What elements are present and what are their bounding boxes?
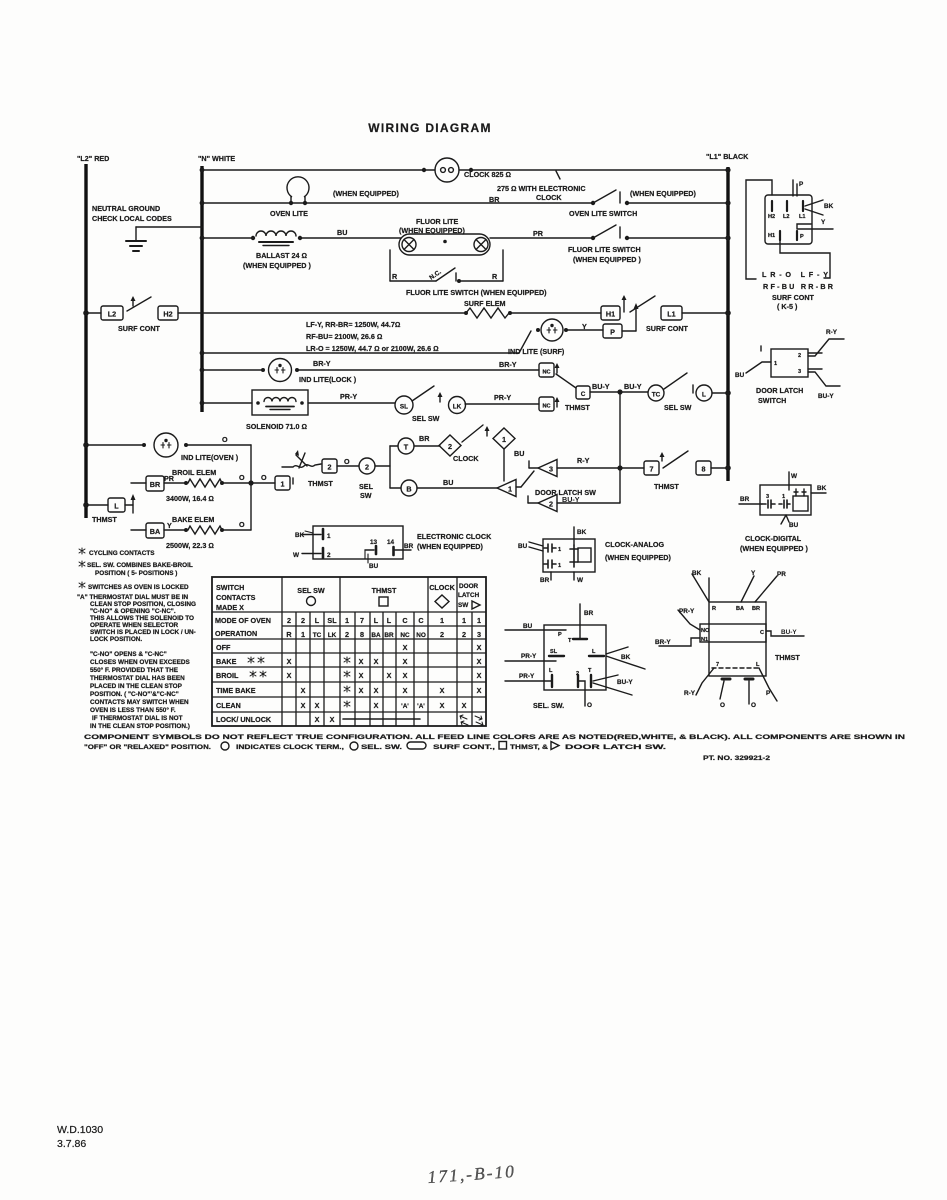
svg-text:R: R — [392, 272, 398, 281]
svg-text:X: X — [301, 686, 306, 695]
terminal L box thmst — [108, 498, 125, 512]
svg-text:X: X — [374, 657, 379, 666]
svg-text:BR: BR — [384, 632, 394, 639]
svg-text:C: C — [581, 391, 586, 398]
svg-text:X: X — [301, 701, 306, 710]
contact L circle — [696, 385, 712, 401]
node junction N row G — [200, 401, 205, 406]
wire 2box to 2circle — [337, 465, 359, 467]
contact pin 13 — [365, 549, 374, 551]
svg-text:2: 2 — [549, 500, 553, 509]
svg-text:X: X — [359, 671, 364, 680]
table vertical grid — [282, 577, 472, 726]
svg-text:CLEAN: CLEAN — [216, 701, 241, 710]
terminal BA box — [131, 529, 146, 531]
svg-text:OPERATE WHEN SELECTOR: OPERATE WHEN SELECTOR — [90, 622, 179, 629]
svg-text:SEL. SW.: SEL. SW. — [361, 744, 402, 751]
svg-text:L2: L2 — [783, 214, 790, 220]
svg-text:IND LITE(OVEN ): IND LITE(OVEN ) — [181, 453, 239, 462]
node junction L1 row C — [725, 235, 730, 240]
node junction L1 row D — [725, 310, 731, 316]
svg-text:L1: L1 — [799, 214, 806, 220]
svg-text:R-Y: R-Y — [684, 690, 696, 697]
svg-text:(WHEN EQUIPPED): (WHEN EQUIPPED) — [630, 189, 696, 198]
svg-text:SL: SL — [327, 616, 337, 625]
lamp oven lite — [287, 177, 309, 197]
lamp ind lite surf — [536, 328, 540, 332]
note star 3 — [79, 582, 85, 588]
svg-text:275 Ω WITH ELECTRONIC: 275 Ω WITH ELECTRONIC — [497, 184, 586, 193]
sel sw BR contact bar — [573, 638, 587, 640]
table lock arrows door latch — [460, 715, 468, 725]
wire row B oven lite line — [202, 202, 593, 204]
node junction L2 row K — [83, 502, 89, 508]
svg-text:O: O — [344, 457, 350, 466]
wire vertical BU-Y riser — [619, 392, 621, 502]
svg-text:LOCK/ UNLOCK: LOCK/ UNLOCK — [216, 715, 272, 724]
svg-text:THMST: THMST — [92, 515, 117, 524]
wire bracket vertical — [389, 446, 391, 488]
svg-text:X: X — [315, 701, 320, 710]
wire 8 box to L1 — [711, 467, 728, 469]
table horizontal grid — [212, 612, 486, 712]
wire L1 box to L1 bus — [682, 312, 728, 314]
legend clock term circle — [221, 742, 229, 750]
svg-text:BK: BK — [692, 570, 702, 577]
svg-text:NC: NC — [542, 404, 550, 410]
svg-text:1: 1 — [440, 616, 444, 625]
svg-text:PR-Y: PR-Y — [521, 653, 537, 660]
svg-text:X: X — [315, 715, 320, 724]
svg-text:L: L — [549, 668, 553, 674]
fluor tube right electrode — [474, 238, 488, 252]
svg-text:X: X — [403, 643, 408, 652]
svg-text:2: 2 — [345, 630, 349, 639]
svg-text:LF-Y, RR-BR= 1250W, 44.7Ω: LF-Y, RR-BR= 1250W, 44.7Ω — [306, 320, 400, 329]
resistor bake elem — [184, 528, 188, 532]
svg-text:BR-Y: BR-Y — [313, 359, 331, 368]
surf cont K-5 pin H1 — [779, 231, 781, 240]
svg-text:"L2" RED: "L2" RED — [77, 154, 109, 163]
clock-digital motor — [793, 496, 808, 511]
svg-text:PLACED IN THE CLEAN STOP: PLACED IN THE CLEAN STOP — [90, 683, 183, 690]
terminal NC box lower — [539, 397, 554, 411]
legend door latch triangle — [551, 742, 559, 750]
svg-text:B: B — [406, 485, 411, 494]
terminal L2 box — [101, 306, 123, 320]
node junction N row E — [200, 351, 205, 356]
node junction row H riser — [617, 465, 622, 470]
svg-text:CHECK LOCAL CODES: CHECK LOCAL CODES — [92, 214, 172, 223]
lamp ind lite oven terminals — [142, 443, 146, 447]
svg-text:R: R — [712, 606, 716, 612]
svg-text:3: 3 — [766, 494, 769, 500]
svg-text:P: P — [799, 181, 804, 188]
svg-text:SEL. SW.: SEL. SW. — [533, 701, 564, 710]
terminal 2 box — [322, 459, 337, 473]
svg-text:NO: NO — [701, 628, 710, 634]
thmst BK wire — [692, 574, 709, 602]
wire LK to NC lower — [465, 403, 539, 405]
svg-text:2: 2 — [328, 463, 332, 472]
svg-text:P: P — [800, 234, 804, 240]
contact door latch terminal 2 triangle — [527, 496, 529, 503]
wire oven lamp to corner — [186, 444, 251, 446]
wire surf elem to H1 — [510, 312, 601, 314]
svg-text:2: 2 — [448, 442, 452, 451]
svg-text:7: 7 — [650, 465, 654, 474]
svg-text:BR: BR — [150, 480, 161, 489]
svg-text:"A" THERMOSTAT DIAL MUST BE IN: "A" THERMOSTAT DIAL MUST BE IN — [77, 594, 189, 601]
thmst bottom contact 2 — [745, 678, 753, 681]
svg-text:CLOCK: CLOCK — [453, 454, 479, 463]
thmst Y wire — [741, 576, 754, 602]
wire P box riser — [622, 330, 636, 332]
svg-text:X: X — [477, 643, 482, 652]
svg-text:T: T — [404, 443, 409, 452]
svg-text:BR: BR — [584, 610, 594, 617]
svg-text:SOLENOID 71.0 Ω: SOLENOID 71.0 Ω — [246, 422, 307, 431]
svg-text:P: P — [558, 632, 562, 638]
wire L2 to ind lite oven — [86, 444, 144, 446]
svg-text:PR-Y: PR-Y — [679, 608, 695, 615]
svg-text:X: X — [403, 657, 408, 666]
svg-text:SL: SL — [550, 649, 558, 655]
node junction N row B — [200, 201, 205, 206]
svg-text:W: W — [791, 473, 798, 480]
node junction N row A — [200, 168, 205, 173]
sel sw BR pin — [579, 604, 581, 638]
wire lamp to P box — [566, 329, 603, 331]
svg-text:BU-Y: BU-Y — [592, 382, 610, 391]
svg-text:OVEN LITE SWITCH: OVEN LITE SWITCH — [569, 209, 637, 218]
svg-text:SEL. SW. COMBINES BAKE-BROIL: SEL. SW. COMBINES BAKE-BROIL — [87, 562, 193, 569]
wire triangle3 to 7 box — [557, 467, 644, 469]
svg-text:BROIL ELEM: BROIL ELEM — [172, 468, 216, 477]
svg-text:SEL SW: SEL SW — [664, 403, 692, 412]
svg-text:SW: SW — [360, 491, 372, 500]
svg-text:COMPONENT SYMBOLS DO NOT RE: COMPONENT SYMBOLS DO NOT REFLECT TRUE CO… — [84, 734, 906, 741]
svg-text:X: X — [462, 701, 467, 710]
svg-text:X: X — [287, 657, 292, 666]
svg-text:BR: BR — [752, 606, 760, 612]
wire solenoid to SL — [308, 402, 395, 404]
svg-text:2: 2 — [440, 630, 444, 639]
thmst PR wire — [755, 576, 777, 602]
svg-text:R-Y: R-Y — [826, 329, 838, 336]
wire H2 to surf elem — [178, 312, 466, 314]
svg-text:X: X — [477, 657, 482, 666]
svg-text:W.D.1030: W.D.1030 — [57, 1124, 103, 1136]
svg-text:(WHEN EQUIPPED ): (WHEN EQUIPPED ) — [243, 261, 311, 270]
svg-text:X: X — [287, 671, 292, 680]
wire L1 feed bus — [726, 167, 729, 481]
svg-text:1: 1 — [327, 533, 331, 540]
svg-text:SEL SW: SEL SW — [297, 586, 325, 595]
svg-text:IN THE CLEAN STOP POSITION.: IN THE CLEAN STOP POSITION.) — [90, 723, 190, 730]
svg-text:1: 1 — [558, 563, 561, 569]
svg-text:CLOCK: CLOCK — [429, 583, 455, 592]
svg-text:SURF ELEM: SURF ELEM — [464, 299, 506, 308]
node junction N row F — [200, 368, 205, 373]
svg-text:( K-5 ): ( K-5 ) — [777, 302, 798, 311]
thmst detail inner band — [700, 624, 766, 642]
svg-text:2: 2 — [798, 353, 801, 359]
sel sw detail box — [544, 625, 606, 690]
switch thmst cycling blade — [292, 478, 294, 484]
lamp ind lite lock — [269, 359, 292, 382]
svg-text:2500W, 22.3 Ω: 2500W, 22.3 Ω — [166, 541, 214, 550]
node junction BU-Y — [617, 389, 622, 394]
svg-text:SW: SW — [458, 602, 469, 609]
svg-text:BU: BU — [337, 228, 347, 237]
wire triangle2 to riser — [557, 502, 620, 504]
wire bake to corner — [164, 529, 186, 531]
wire T to diamond2 — [414, 445, 440, 447]
svg-text:X: X — [440, 701, 445, 710]
sel sw BU-Y fan wires — [593, 675, 632, 695]
svg-text:1: 1 — [477, 616, 481, 625]
wire tube to switch — [490, 237, 593, 239]
node junction L1 row G — [725, 390, 731, 396]
svg-text:PT. NO. 329921-2: PT. NO. 329921-2 — [703, 755, 771, 762]
wire fluor starter bracket — [389, 250, 391, 281]
switch sel sw blade TC-L — [664, 373, 687, 389]
svg-text:PR: PR — [533, 229, 544, 238]
node junction L1 row A — [725, 167, 730, 172]
wire diamond1 down to triangle1 — [503, 449, 505, 481]
clock-digital contact 3 — [762, 500, 775, 508]
node junction L2 row D — [83, 310, 89, 316]
svg-text:1: 1 — [345, 616, 349, 625]
svg-text:BK: BK — [621, 654, 631, 661]
svg-text:FLUOR LITE SWITCH (WHEN EQUIPP: FLUOR LITE SWITCH (WHEN EQUIPPED) — [406, 288, 547, 297]
clock-analog BR pin — [550, 572, 552, 580]
svg-text:NC: NC — [400, 632, 410, 639]
contact B circle — [401, 480, 417, 496]
door latch switch box — [771, 349, 808, 377]
contact SL circle — [395, 396, 413, 414]
svg-text:7: 7 — [360, 616, 364, 625]
svg-text:"OFF" OR "RELAXED" POSITION.: "OFF" OR "RELAXED" POSITION. — [84, 744, 211, 751]
svg-text:'A': 'A' — [401, 703, 409, 710]
clock-digital BR wire — [739, 503, 762, 505]
thmst P wire — [759, 668, 777, 701]
svg-text:THIS ALLOWS THE SOLENOID TO: THIS ALLOWS THE SOLENOID TO — [90, 615, 194, 622]
wire C to junction — [590, 391, 648, 393]
switch sel sw blade row G — [412, 386, 434, 401]
svg-text:BK: BK — [817, 485, 827, 492]
thmst R-Y wire — [696, 668, 714, 695]
svg-text:X: X — [374, 686, 379, 695]
thmst bottom contact 1 — [722, 678, 730, 681]
svg-text:"C-NO" & OPENING "C-NC".: "C-NO" & OPENING "C-NC". — [90, 608, 176, 615]
svg-text:X: X — [359, 657, 364, 666]
svg-text:2: 2 — [462, 630, 466, 639]
svg-text:POSITION. ( "C-NO"’&"C-NC": POSITION. ( "C-NO"’&"C-NC" — [90, 691, 179, 698]
svg-text:NEUTRAL GROUND: NEUTRAL GROUND — [92, 204, 160, 213]
svg-text:FLUOR LITE SWITCH: FLUOR LITE SWITCH — [568, 245, 641, 254]
ground — [126, 240, 146, 242]
clock-digital W pin — [788, 472, 790, 490]
thmst O wire 2 — [748, 681, 750, 704]
svg-text:L2: L2 — [108, 310, 116, 319]
svg-text:SEL: SEL — [359, 482, 374, 491]
svg-text:O: O — [587, 702, 592, 709]
legend thmst square — [499, 742, 507, 750]
wire W pin — [302, 553, 321, 555]
svg-text:THMST: THMST — [654, 482, 679, 491]
switch surf cont left blade — [127, 297, 151, 311]
terminal BR box — [131, 482, 146, 484]
svg-text:CLOCK-ANALOG: CLOCK-ANALOG — [605, 540, 664, 549]
svg-text:Y: Y — [821, 219, 826, 226]
svg-text:(WHEN EQUIPPED ): (WHEN EQUIPPED ) — [740, 544, 808, 553]
terminal P box — [603, 324, 622, 338]
svg-text:CLOSES WHEN OVEN EXCEEDS: CLOSES WHEN OVEN EXCEEDS — [90, 659, 191, 666]
svg-text:Y: Y — [751, 570, 756, 577]
svg-text:2: 2 — [301, 616, 305, 625]
wire ballast to tube — [300, 237, 401, 239]
terminal NC box upper — [539, 363, 554, 377]
svg-text:(WHEN EQUIPPED): (WHEN EQUIPPED) — [333, 189, 399, 198]
surf cont K-5 pin H2 — [771, 201, 773, 211]
svg-text:BA: BA — [736, 606, 744, 612]
svg-text:LR-O = 1250W, 44.7 Ω or 2100W,: LR-O = 1250W, 44.7 Ω or 2100W, 26.6 Ω — [306, 344, 439, 353]
svg-text:LK: LK — [328, 632, 337, 639]
switch thmst blade row H — [661, 454, 663, 461]
node junction N row C — [200, 236, 205, 241]
svg-text:3400W, 16.4 Ω: 3400W, 16.4 Ω — [166, 494, 214, 503]
svg-text:BA: BA — [150, 527, 160, 536]
sel sw PR-Y lower wire — [505, 680, 551, 682]
clock-digital BK wire — [811, 492, 826, 494]
contact door latch terminal 3 triangle — [528, 461, 530, 468]
wire BK pin — [303, 534, 321, 536]
svg-text:BROIL: BROIL — [216, 671, 239, 680]
switch oven lite switch — [591, 201, 595, 205]
svg-text:171,-B-10: 171,-B-10 — [427, 1161, 517, 1187]
svg-text:1: 1 — [281, 480, 285, 489]
wire 2circle to bracket — [375, 465, 390, 467]
svg-text:L: L — [114, 502, 119, 511]
wire N feed bus — [200, 166, 203, 412]
svg-text:THMST: THMST — [308, 479, 333, 488]
svg-text:RF-BU= 2100W, 26.6 Ω: RF-BU= 2100W, 26.6 Ω — [306, 332, 382, 341]
svg-text:7: 7 — [716, 662, 719, 668]
svg-text:LATCH: LATCH — [458, 592, 480, 599]
wire vertical corner x251 — [250, 445, 252, 530]
wire row A clock line — [202, 169, 435, 171]
svg-text:THMST: THMST — [372, 586, 397, 595]
svg-text:OFF: OFF — [216, 643, 231, 652]
svg-text:O: O — [239, 473, 245, 482]
svg-text:CLOCK: CLOCK — [536, 193, 562, 202]
svg-text:CLEAN STOP POSITION, CLOSING: CLEAN STOP POSITION, CLOSING — [90, 601, 196, 608]
contact pin 14 — [392, 547, 395, 555]
svg-text:H2: H2 — [768, 214, 775, 220]
svg-text:X: X — [477, 686, 482, 695]
svg-text:R: R — [286, 630, 292, 639]
svg-text:SWITCH: SWITCH — [758, 396, 786, 405]
svg-text:INDICATES CLOCK TERM.,: INDICATES CLOCK TERM., — [236, 744, 344, 751]
svg-text:THMST: THMST — [565, 403, 590, 412]
clock-digital box — [760, 485, 811, 515]
wire row E ind lite surf — [202, 352, 519, 354]
svg-text:WIRING DIAGRAM: WIRING DIAGRAM — [368, 121, 492, 135]
svg-text:C: C — [418, 616, 423, 625]
surf cont K-5 unit box — [765, 195, 812, 244]
svg-text:IF THERMOSTAT DIAL IS NOT: IF THERMOSTAT DIAL IS NOT — [92, 715, 183, 722]
svg-text:X: X — [374, 701, 379, 710]
svg-text:X: X — [440, 686, 445, 695]
clock-analog W pin — [573, 572, 575, 580]
svg-text:LR-O LF-Y: LR-O LF-Y — [762, 270, 828, 279]
svg-text:2: 2 — [365, 463, 369, 472]
svg-text:W: W — [577, 577, 584, 584]
svg-text:BU: BU — [523, 623, 533, 630]
svg-text:IND LITE(LOCK ): IND LITE(LOCK ) — [299, 375, 357, 384]
svg-text:OVEN LITE: OVEN LITE — [270, 209, 308, 218]
svg-text:14: 14 — [387, 539, 395, 546]
svg-text:BU: BU — [518, 543, 528, 550]
sel sw O pin — [578, 681, 585, 706]
lamp ind lite lock terminals — [261, 368, 265, 372]
svg-text:8: 8 — [702, 465, 706, 474]
svg-text:1: 1 — [508, 485, 512, 494]
svg-text:BK: BK — [577, 529, 587, 536]
wire L to L1 bus — [712, 392, 728, 394]
switch door latch blade — [516, 486, 521, 488]
svg-text:BU-Y: BU-Y — [781, 629, 797, 636]
wire door latch BU-Y — [808, 369, 840, 386]
svg-text:TC: TC — [313, 632, 322, 639]
wire door latch R-Y — [808, 339, 844, 356]
door latch switch tick — [760, 346, 762, 351]
svg-text:BU: BU — [369, 563, 379, 570]
svg-text:IND LITE (SURF): IND LITE (SURF) — [508, 347, 565, 356]
ballast coil — [251, 236, 255, 240]
svg-text:CYCLING CONTACTS: CYCLING CONTACTS — [89, 550, 155, 557]
surf cont K-5 left bracket wire — [746, 180, 772, 279]
svg-text:(WHEN EQUIPPED): (WHEN EQUIPPED) — [605, 553, 671, 562]
svg-text:1: 1 — [301, 630, 305, 639]
legend surf cont symbol — [407, 742, 426, 749]
svg-text:SEL SW: SEL SW — [412, 414, 440, 423]
contact T circle clock — [398, 438, 414, 454]
terminal C box thmst — [576, 386, 590, 399]
svg-text:O: O — [751, 702, 756, 709]
lamp ind lite oven — [154, 433, 178, 457]
svg-text:"L1" BLACK: "L1" BLACK — [706, 152, 749, 161]
wire BU to door latch — [746, 362, 771, 373]
svg-text:3: 3 — [798, 369, 801, 375]
svg-text:NC: NC — [542, 370, 550, 376]
svg-text:L: L — [592, 649, 596, 655]
switch surf cont right blade — [623, 297, 625, 312]
svg-text:X: X — [403, 686, 408, 695]
svg-text:P: P — [766, 690, 771, 697]
svg-text:N1: N1 — [701, 637, 708, 643]
svg-text:BU: BU — [735, 372, 745, 379]
svg-text:SL: SL — [400, 404, 408, 411]
surf cont K-5 Y wire — [797, 224, 833, 229]
fluor lite tube — [399, 234, 490, 255]
surf cont K-5 pin L2 — [786, 201, 788, 211]
svg-text:CLOCK 825 Ω: CLOCK 825 Ω — [464, 170, 511, 179]
wire L2 to L2 box — [86, 312, 101, 314]
svg-text:8: 8 — [360, 630, 364, 639]
